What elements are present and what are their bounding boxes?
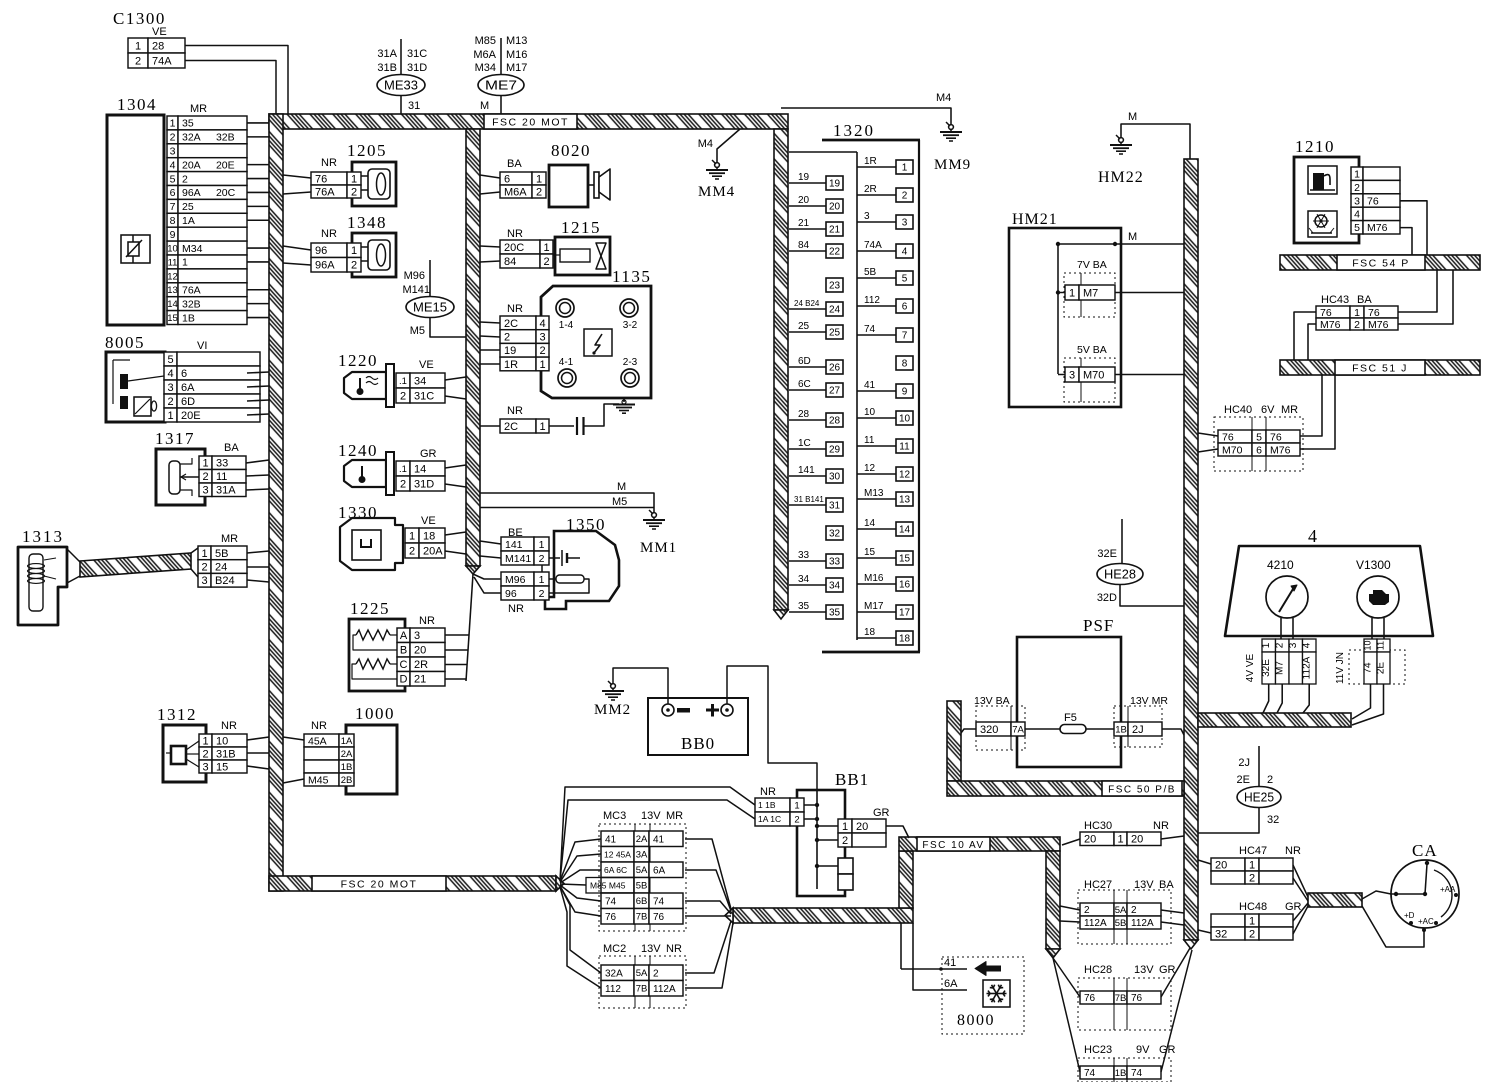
V1300 pin cells bbox=[1335, 639, 1405, 684]
svg-text:96A: 96A bbox=[315, 260, 335, 272]
wires 1205 to bundle bbox=[283, 175, 311, 178]
svg-text:3: 3 bbox=[1288, 642, 1299, 648]
svg-text:5B: 5B bbox=[864, 267, 877, 278]
svg-text:FSC 54 P: FSC 54 P bbox=[1352, 257, 1410, 269]
svg-text:18: 18 bbox=[864, 627, 876, 638]
svg-text:7: 7 bbox=[170, 201, 176, 213]
svg-text:31C: 31C bbox=[414, 390, 434, 402]
wires 8020 to bundle bbox=[480, 175, 500, 178]
svg-text:76: 76 bbox=[1368, 307, 1380, 319]
junction box BB1 bbox=[755, 770, 890, 896]
svg-text:2: 2 bbox=[201, 562, 207, 574]
svg-text:MC3: MC3 bbox=[603, 810, 626, 822]
battery BB0 bbox=[648, 698, 748, 755]
svg-text:76: 76 bbox=[1222, 431, 1234, 443]
svg-text:13V MR: 13V MR bbox=[1130, 695, 1168, 707]
svg-text:FSC 20 MOT: FSC 20 MOT bbox=[341, 878, 418, 890]
svg-text:1: 1 bbox=[135, 40, 141, 52]
ECU 1304 bbox=[107, 95, 247, 325]
wires 1000 to bundle bbox=[283, 737, 304, 740]
svg-text:32E: 32E bbox=[1261, 659, 1272, 677]
wires HC48 bbox=[1198, 930, 1211, 933]
svg-text:C: C bbox=[400, 659, 408, 671]
svg-text:1: 1 bbox=[202, 735, 208, 747]
svg-text:FSC 20 MOT: FSC 20 MOT bbox=[492, 116, 569, 128]
svg-text:76: 76 bbox=[1270, 431, 1282, 443]
wire HE28 net 32D to bundle bbox=[1120, 585, 1184, 607]
svg-text:20: 20 bbox=[414, 645, 426, 657]
svg-text:32B: 32B bbox=[216, 132, 235, 144]
svg-text:20C: 20C bbox=[216, 187, 236, 199]
svg-text:3: 3 bbox=[1069, 369, 1075, 381]
fuse box PSF bbox=[974, 616, 1168, 767]
svg-text:28: 28 bbox=[829, 416, 841, 427]
wires 1304 pins to bundle bbox=[247, 122, 269, 124]
svg-text:FSC 51 J: FSC 51 J bbox=[1352, 362, 1408, 374]
svg-text:1B: 1B bbox=[182, 312, 195, 324]
svg-text:F5: F5 bbox=[1064, 712, 1077, 724]
wires 8005 pins to bundle bbox=[247, 372, 269, 373]
module HM21 bbox=[1009, 211, 1121, 407]
svg-text:11V JN: 11V JN bbox=[1335, 652, 1346, 684]
1320 pin 32 bbox=[826, 526, 843, 540]
svg-text:31A: 31A bbox=[216, 485, 236, 497]
svg-text:MM4: MM4 bbox=[698, 184, 735, 200]
svg-text:84: 84 bbox=[504, 256, 516, 268]
svg-text:1: 1 bbox=[201, 548, 207, 560]
wires HC40 left to bundle bbox=[1198, 433, 1218, 436]
instrument cluster 4 bbox=[1225, 526, 1433, 639]
svg-text:32: 32 bbox=[1267, 814, 1279, 826]
svg-text:20: 20 bbox=[1215, 859, 1227, 871]
svg-text:76A: 76A bbox=[182, 285, 201, 297]
capacitor row 2C with capacitor to ground bbox=[480, 404, 619, 435]
svg-text:96: 96 bbox=[505, 588, 517, 600]
ground MM2 bbox=[594, 681, 631, 718]
svg-text:16: 16 bbox=[899, 580, 911, 591]
splice HC40 bbox=[1214, 404, 1303, 471]
svg-text:33: 33 bbox=[798, 550, 810, 561]
svg-text:41: 41 bbox=[605, 834, 617, 845]
svg-text:33: 33 bbox=[829, 557, 841, 568]
svg-text:2: 2 bbox=[1084, 905, 1090, 916]
svg-text:1: 1 bbox=[539, 421, 545, 433]
wires fan-out to BB1 NR bbox=[560, 787, 755, 881]
svg-text:14: 14 bbox=[167, 299, 178, 310]
svg-text:28: 28 bbox=[798, 409, 810, 420]
svg-text:2C: 2C bbox=[504, 421, 518, 433]
svg-text:HE25: HE25 bbox=[1244, 790, 1274, 805]
svg-text:2A: 2A bbox=[636, 834, 648, 845]
svg-text:M85: M85 bbox=[475, 35, 496, 47]
svg-text:M76: M76 bbox=[1270, 444, 1291, 456]
svg-text:M7: M7 bbox=[1083, 287, 1098, 299]
svg-text:HC28: HC28 bbox=[1084, 964, 1112, 976]
svg-text:HC48: HC48 bbox=[1239, 901, 1267, 913]
svg-text:1: 1 bbox=[794, 800, 799, 811]
svg-text:5A: 5A bbox=[636, 968, 648, 979]
splice MC2 bbox=[599, 943, 686, 1008]
switch 1312 bbox=[157, 705, 247, 782]
svg-text:15: 15 bbox=[216, 761, 228, 773]
svg-text:1000: 1000 bbox=[355, 704, 395, 723]
svg-text:6A 6C: 6A 6C bbox=[604, 865, 627, 875]
svg-text:29: 29 bbox=[829, 445, 841, 456]
svg-text:BA: BA bbox=[1357, 294, 1372, 306]
wire bundle right vertical along 1320 bbox=[774, 129, 788, 610]
1320 pin 4 bbox=[896, 244, 913, 258]
svg-text:M76: M76 bbox=[1368, 319, 1389, 331]
svg-text:3: 3 bbox=[902, 218, 908, 229]
svg-text:1: 1 bbox=[351, 245, 357, 257]
svg-text:NR: NR bbox=[419, 615, 435, 627]
svg-text:NR: NR bbox=[321, 157, 337, 169]
svg-text:24 B24: 24 B24 bbox=[794, 299, 820, 308]
svg-text:76: 76 bbox=[605, 912, 617, 923]
wire HM21 M7 to bundle bbox=[1115, 292, 1184, 294]
svg-text:6: 6 bbox=[181, 368, 187, 380]
1320 pin 22 bbox=[826, 244, 843, 258]
svg-text:1: 1 bbox=[1354, 307, 1360, 319]
svg-text:M85 M45: M85 M45 bbox=[590, 881, 626, 891]
connector C1300 bbox=[113, 9, 185, 68]
svg-text:31C: 31C bbox=[407, 48, 427, 60]
svg-text:10: 10 bbox=[167, 243, 178, 254]
svg-text:M: M bbox=[1128, 111, 1137, 123]
1320 pin 1 bbox=[896, 160, 913, 174]
splice HC43 bbox=[1316, 294, 1398, 331]
svg-text:2: 2 bbox=[135, 55, 141, 67]
svg-text:20: 20 bbox=[856, 821, 868, 833]
svg-text:7B: 7B bbox=[636, 912, 648, 923]
svg-text:VE: VE bbox=[152, 26, 167, 38]
1320 pin 29 bbox=[826, 442, 843, 456]
svg-text:15: 15 bbox=[864, 547, 876, 558]
wire bundle inner vertical 2 bbox=[466, 129, 480, 566]
wire C1300-1 net 28 bbox=[185, 46, 288, 115]
wires 1225 to bundle collector bbox=[466, 574, 473, 681]
svg-text:34: 34 bbox=[414, 375, 426, 387]
ground MM1 bbox=[640, 510, 677, 556]
svg-text:M13: M13 bbox=[864, 488, 884, 499]
svg-text:20E: 20E bbox=[216, 159, 235, 171]
svg-text:5: 5 bbox=[1354, 222, 1360, 234]
svg-text:NR: NR bbox=[507, 228, 523, 240]
1320 pin 8 bbox=[896, 356, 913, 370]
svg-text:5: 5 bbox=[902, 274, 908, 285]
svg-text:1: 1 bbox=[1249, 859, 1255, 871]
resistor pack 1225 bbox=[349, 599, 445, 691]
1320 pin 24 bbox=[826, 302, 843, 316]
svg-text:2: 2 bbox=[539, 345, 545, 357]
wire bundle FSC 10 AV riser bbox=[899, 851, 913, 908]
svg-text:20A: 20A bbox=[423, 545, 443, 557]
svg-text:HC23: HC23 bbox=[1084, 1044, 1112, 1056]
wires 1313 pins to bundle bbox=[247, 551, 269, 553]
svg-text:141: 141 bbox=[505, 539, 523, 551]
sensor 1317 bbox=[155, 429, 246, 505]
svg-text:1-4: 1-4 bbox=[559, 320, 574, 331]
wire bundle FSC 50 P/B bbox=[947, 701, 961, 781]
svg-text:21: 21 bbox=[829, 225, 841, 236]
1320 pin 2 bbox=[896, 188, 913, 202]
svg-text:HC27: HC27 bbox=[1084, 879, 1112, 891]
svg-text:CA: CA bbox=[1412, 841, 1438, 860]
wire 1210-3 net 76 bbox=[1400, 201, 1427, 255]
svg-text:B24: B24 bbox=[215, 575, 235, 587]
1320 pin 28 bbox=[826, 413, 843, 427]
svg-text:1: 1 bbox=[539, 539, 545, 551]
svg-text:10: 10 bbox=[216, 735, 228, 747]
svg-text:4: 4 bbox=[1308, 526, 1317, 546]
svg-text:35: 35 bbox=[798, 601, 810, 612]
svg-text:MM2: MM2 bbox=[594, 702, 631, 718]
svg-text:14: 14 bbox=[899, 525, 911, 536]
svg-text:84: 84 bbox=[798, 240, 810, 251]
svg-text:4: 4 bbox=[902, 247, 908, 258]
svg-text:1312: 1312 bbox=[157, 705, 197, 724]
svg-text:1: 1 bbox=[1249, 915, 1255, 927]
svg-text:17: 17 bbox=[899, 608, 911, 619]
svg-text:6: 6 bbox=[902, 302, 908, 313]
wires 1330 to bundle bbox=[445, 532, 466, 535]
1320 pin 3 bbox=[896, 215, 913, 229]
svg-text:31D: 31D bbox=[414, 478, 434, 490]
svg-text:76: 76 bbox=[1367, 195, 1379, 207]
svg-text:+AC: +AC bbox=[1418, 917, 1434, 926]
svg-text:2: 2 bbox=[1354, 319, 1360, 331]
svg-text:3: 3 bbox=[202, 761, 208, 773]
svg-text:1A: 1A bbox=[182, 215, 195, 227]
svg-text:2: 2 bbox=[902, 191, 908, 202]
1320 pin 14 bbox=[896, 522, 913, 536]
svg-text:HC43: HC43 bbox=[1321, 294, 1349, 306]
svg-text:41: 41 bbox=[653, 834, 665, 845]
svg-text:1320: 1320 bbox=[833, 121, 875, 140]
svg-text:112A: 112A bbox=[1302, 656, 1313, 679]
svg-text:1: 1 bbox=[1354, 168, 1360, 180]
wire HE25 net 32 to bundle bbox=[1198, 808, 1259, 834]
svg-text:2: 2 bbox=[653, 968, 659, 979]
svg-text:6A: 6A bbox=[944, 978, 958, 990]
wire bundle FSC 51 J bbox=[1280, 360, 1480, 375]
wires fan-out to MC3 bbox=[560, 839, 601, 881]
1320 pin 11 bbox=[896, 439, 913, 453]
svg-text:5: 5 bbox=[167, 354, 173, 366]
svg-text:M4: M4 bbox=[698, 138, 713, 150]
splice HC28 bbox=[1078, 964, 1176, 1030]
1320 pin 35 bbox=[826, 605, 843, 619]
wire battery plus to BB1 bus bbox=[727, 666, 817, 790]
svg-text:1135: 1135 bbox=[612, 267, 651, 286]
fuel gauge sender 1210 bbox=[1294, 137, 1400, 243]
svg-text:7B: 7B bbox=[1115, 993, 1127, 1004]
svg-text:M4: M4 bbox=[936, 92, 951, 104]
svg-text:32B: 32B bbox=[182, 298, 201, 310]
svg-text:6B: 6B bbox=[636, 896, 648, 907]
svg-text:25: 25 bbox=[798, 321, 810, 332]
svg-text:10: 10 bbox=[864, 407, 876, 418]
svg-text:BA: BA bbox=[1159, 879, 1174, 891]
svg-text:M13: M13 bbox=[506, 35, 527, 47]
svg-text:5B: 5B bbox=[1115, 918, 1127, 929]
svg-text:19: 19 bbox=[829, 179, 841, 190]
1320 pin 16 bbox=[896, 577, 913, 591]
svg-text:2-3: 2-3 bbox=[623, 357, 638, 368]
svg-text:M96: M96 bbox=[505, 574, 526, 586]
svg-text:8000: 8000 bbox=[957, 1012, 995, 1029]
svg-text:20C: 20C bbox=[504, 242, 524, 254]
wires 1348 to bundle bbox=[283, 246, 311, 250]
svg-text:M141: M141 bbox=[505, 553, 531, 565]
svg-text:3: 3 bbox=[167, 382, 173, 394]
svg-text:74: 74 bbox=[864, 324, 876, 335]
indicator V1300 bbox=[1357, 576, 1399, 618]
svg-text:1R: 1R bbox=[504, 359, 518, 371]
svg-text:13V: 13V bbox=[1134, 879, 1154, 891]
svg-text:ME7: ME7 bbox=[485, 78, 517, 93]
svg-text:7V BA: 7V BA bbox=[1077, 259, 1107, 271]
svg-text:35: 35 bbox=[829, 608, 841, 619]
wire bundle FSC 54 P bbox=[1280, 255, 1480, 270]
svg-text:8: 8 bbox=[902, 359, 908, 370]
svg-text:1B: 1B bbox=[1115, 724, 1127, 735]
svg-text:1 1B: 1 1B bbox=[758, 800, 776, 810]
svg-text:MM1: MM1 bbox=[640, 540, 677, 556]
svg-text:BB1: BB1 bbox=[835, 770, 869, 789]
svg-text:HC30: HC30 bbox=[1084, 820, 1112, 832]
horn 8020 bbox=[500, 141, 610, 207]
svg-text:13V: 13V bbox=[641, 810, 661, 822]
wires HC40 right to FSC 51 J bbox=[1300, 375, 1322, 436]
svg-text:96: 96 bbox=[315, 245, 327, 257]
1320 pin 19 bbox=[826, 176, 843, 190]
svg-text:112: 112 bbox=[864, 295, 880, 306]
A/C unit 8000 bbox=[901, 923, 1024, 1034]
svg-text:35: 35 bbox=[182, 118, 194, 130]
svg-text:2C: 2C bbox=[504, 318, 518, 330]
wire PSF 2J to bundle bbox=[1162, 729, 1184, 735]
svg-text:M70: M70 bbox=[1222, 444, 1243, 456]
svg-text:32: 32 bbox=[829, 529, 841, 540]
svg-text:MR: MR bbox=[666, 810, 683, 822]
svg-text:10: 10 bbox=[899, 414, 911, 425]
wire bundle pigtail to ignition switch CA bbox=[1308, 893, 1362, 907]
svg-text:13V: 13V bbox=[1134, 964, 1154, 976]
svg-text:9: 9 bbox=[170, 229, 176, 241]
svg-text:1: 1 bbox=[536, 173, 542, 185]
svg-text:1205: 1205 bbox=[347, 141, 387, 160]
wires HC27 bbox=[1060, 906, 1080, 910]
svg-text:76: 76 bbox=[1084, 993, 1096, 1004]
svg-text:3: 3 bbox=[1354, 195, 1360, 207]
svg-text:1317: 1317 bbox=[155, 429, 195, 448]
svg-text:1210: 1210 bbox=[1295, 137, 1335, 156]
svg-text:3: 3 bbox=[864, 211, 870, 222]
splice MC3 bbox=[586, 810, 686, 931]
wires 1220 to bundle bbox=[445, 377, 466, 380]
1320 pin 13 bbox=[896, 492, 913, 506]
svg-text:2E: 2E bbox=[1376, 662, 1387, 675]
svg-text:2: 2 bbox=[351, 186, 357, 198]
svg-text:M76: M76 bbox=[1367, 222, 1388, 234]
wire ME15 to bundle bbox=[430, 318, 466, 338]
svg-text:8: 8 bbox=[170, 215, 176, 227]
svg-text:4210: 4210 bbox=[1267, 558, 1294, 572]
svg-text:5B: 5B bbox=[636, 881, 648, 892]
wire bundle label FSC 10 AV bbox=[917, 837, 990, 851]
svg-text:ME33: ME33 bbox=[384, 78, 418, 93]
1320 pin 17 bbox=[896, 605, 913, 619]
svg-text:18: 18 bbox=[423, 530, 435, 542]
svg-text:NR: NR bbox=[321, 228, 337, 240]
wires 1312 pins to bundle bbox=[247, 737, 269, 740]
svg-text:1B: 1B bbox=[341, 762, 353, 773]
svg-text:76: 76 bbox=[1320, 307, 1332, 319]
splice HC27 bbox=[1078, 879, 1174, 944]
svg-text:NR: NR bbox=[221, 720, 237, 732]
svg-text:FSC 10 AV: FSC 10 AV bbox=[922, 840, 984, 851]
svg-text:2: 2 bbox=[400, 390, 406, 402]
svg-text:6: 6 bbox=[504, 173, 510, 185]
wire C1300-2 net 74A bbox=[185, 61, 276, 115]
wire bundle label FSC 20 MOT (bottom) bbox=[312, 876, 446, 891]
svg-text:7: 7 bbox=[902, 331, 908, 342]
wire bundle FSC 10 AV lower horizontal bbox=[733, 908, 913, 923]
svg-text:M16: M16 bbox=[864, 573, 884, 584]
svg-text:20: 20 bbox=[798, 195, 810, 206]
svg-text:VE: VE bbox=[421, 515, 436, 527]
svg-text:1: 1 bbox=[1069, 287, 1075, 299]
1320 pin 33 bbox=[826, 554, 843, 568]
svg-text:3: 3 bbox=[539, 332, 545, 344]
wire bundle bottom horizontal (FSC 20 MOT) bbox=[269, 876, 556, 891]
svg-text:19: 19 bbox=[798, 172, 810, 183]
svg-text:1: 1 bbox=[202, 458, 208, 470]
node ME15 bbox=[402, 260, 454, 337]
svg-text:1: 1 bbox=[902, 163, 908, 174]
svg-text:3: 3 bbox=[201, 575, 207, 587]
svg-text:31: 31 bbox=[408, 100, 420, 112]
svg-text:1A 1C: 1A 1C bbox=[758, 814, 781, 824]
svg-text:32A: 32A bbox=[182, 132, 201, 144]
svg-text:1: 1 bbox=[543, 242, 549, 254]
ground HM22 bbox=[1098, 111, 1190, 186]
svg-text:2: 2 bbox=[1249, 928, 1255, 940]
svg-text:2J: 2J bbox=[1238, 757, 1250, 769]
svg-text:GR: GR bbox=[873, 807, 890, 819]
svg-text:2: 2 bbox=[842, 835, 848, 847]
svg-text:3A: 3A bbox=[636, 850, 648, 861]
svg-text:1: 1 bbox=[170, 118, 176, 130]
svg-text:M5: M5 bbox=[612, 496, 627, 508]
svg-text:2: 2 bbox=[504, 332, 510, 344]
injector 1348 bbox=[311, 213, 396, 277]
svg-text:VI: VI bbox=[197, 340, 207, 352]
ground of 1135 bbox=[613, 398, 635, 413]
svg-text:1215: 1215 bbox=[561, 218, 601, 237]
svg-text:1: 1 bbox=[182, 257, 188, 269]
wire HM21 M70 to bundle bbox=[1115, 374, 1184, 376]
svg-text:M: M bbox=[617, 481, 626, 493]
svg-text:2: 2 bbox=[539, 553, 545, 565]
svg-text:76A: 76A bbox=[315, 186, 335, 198]
svg-text:4: 4 bbox=[170, 159, 176, 171]
svg-text:11: 11 bbox=[216, 471, 227, 483]
svg-text:4: 4 bbox=[1302, 642, 1313, 648]
svg-text:VE: VE bbox=[419, 359, 434, 371]
svg-text:HC47: HC47 bbox=[1239, 845, 1267, 857]
